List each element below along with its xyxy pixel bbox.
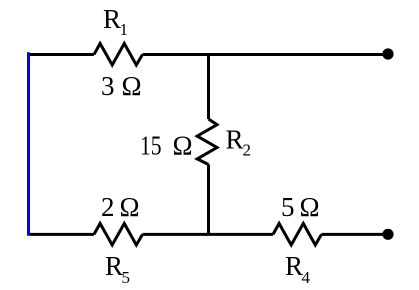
wire: bottom middle horizontal segment [143, 233, 274, 236]
wire: blue left vertical wire [27, 52, 30, 235]
node: bottom right terminal dot [382, 229, 393, 240]
svg-text:4: 4 [302, 268, 311, 287]
svg-text:R: R [103, 4, 121, 34]
svg-text:3: 3 [101, 71, 115, 101]
svg-text:Ω: Ω [300, 192, 320, 222]
svg-text:5: 5 [122, 268, 131, 287]
wire: top right horizontal segment [143, 53, 389, 56]
resistor R5 [94, 224, 143, 246]
wire: R2 bottom vertical segment [207, 165, 210, 235]
svg-text:15: 15 [140, 131, 162, 161]
svg-text:Ω: Ω [173, 131, 193, 161]
resistor R2 [197, 119, 217, 165]
svg-text:R: R [226, 125, 244, 155]
svg-text:R: R [285, 251, 303, 281]
svg-text:R: R [105, 251, 123, 281]
svg-text:2: 2 [101, 192, 115, 222]
node: top right terminal dot [382, 48, 393, 59]
wire: bottom right horizontal segment [322, 233, 389, 236]
wire: R2 top vertical segment [207, 55, 210, 120]
wire: bottom left horizontal segment [30, 233, 95, 236]
svg-text:1: 1 [120, 20, 129, 39]
resistor R1 [94, 44, 143, 66]
wire: top left horizontal segment [30, 53, 95, 56]
svg-text:2: 2 [243, 141, 252, 160]
resistor R4 [273, 224, 322, 246]
svg-text:Ω: Ω [120, 192, 140, 222]
svg-text:5: 5 [281, 192, 295, 222]
svg-text:Ω: Ω [122, 71, 142, 101]
